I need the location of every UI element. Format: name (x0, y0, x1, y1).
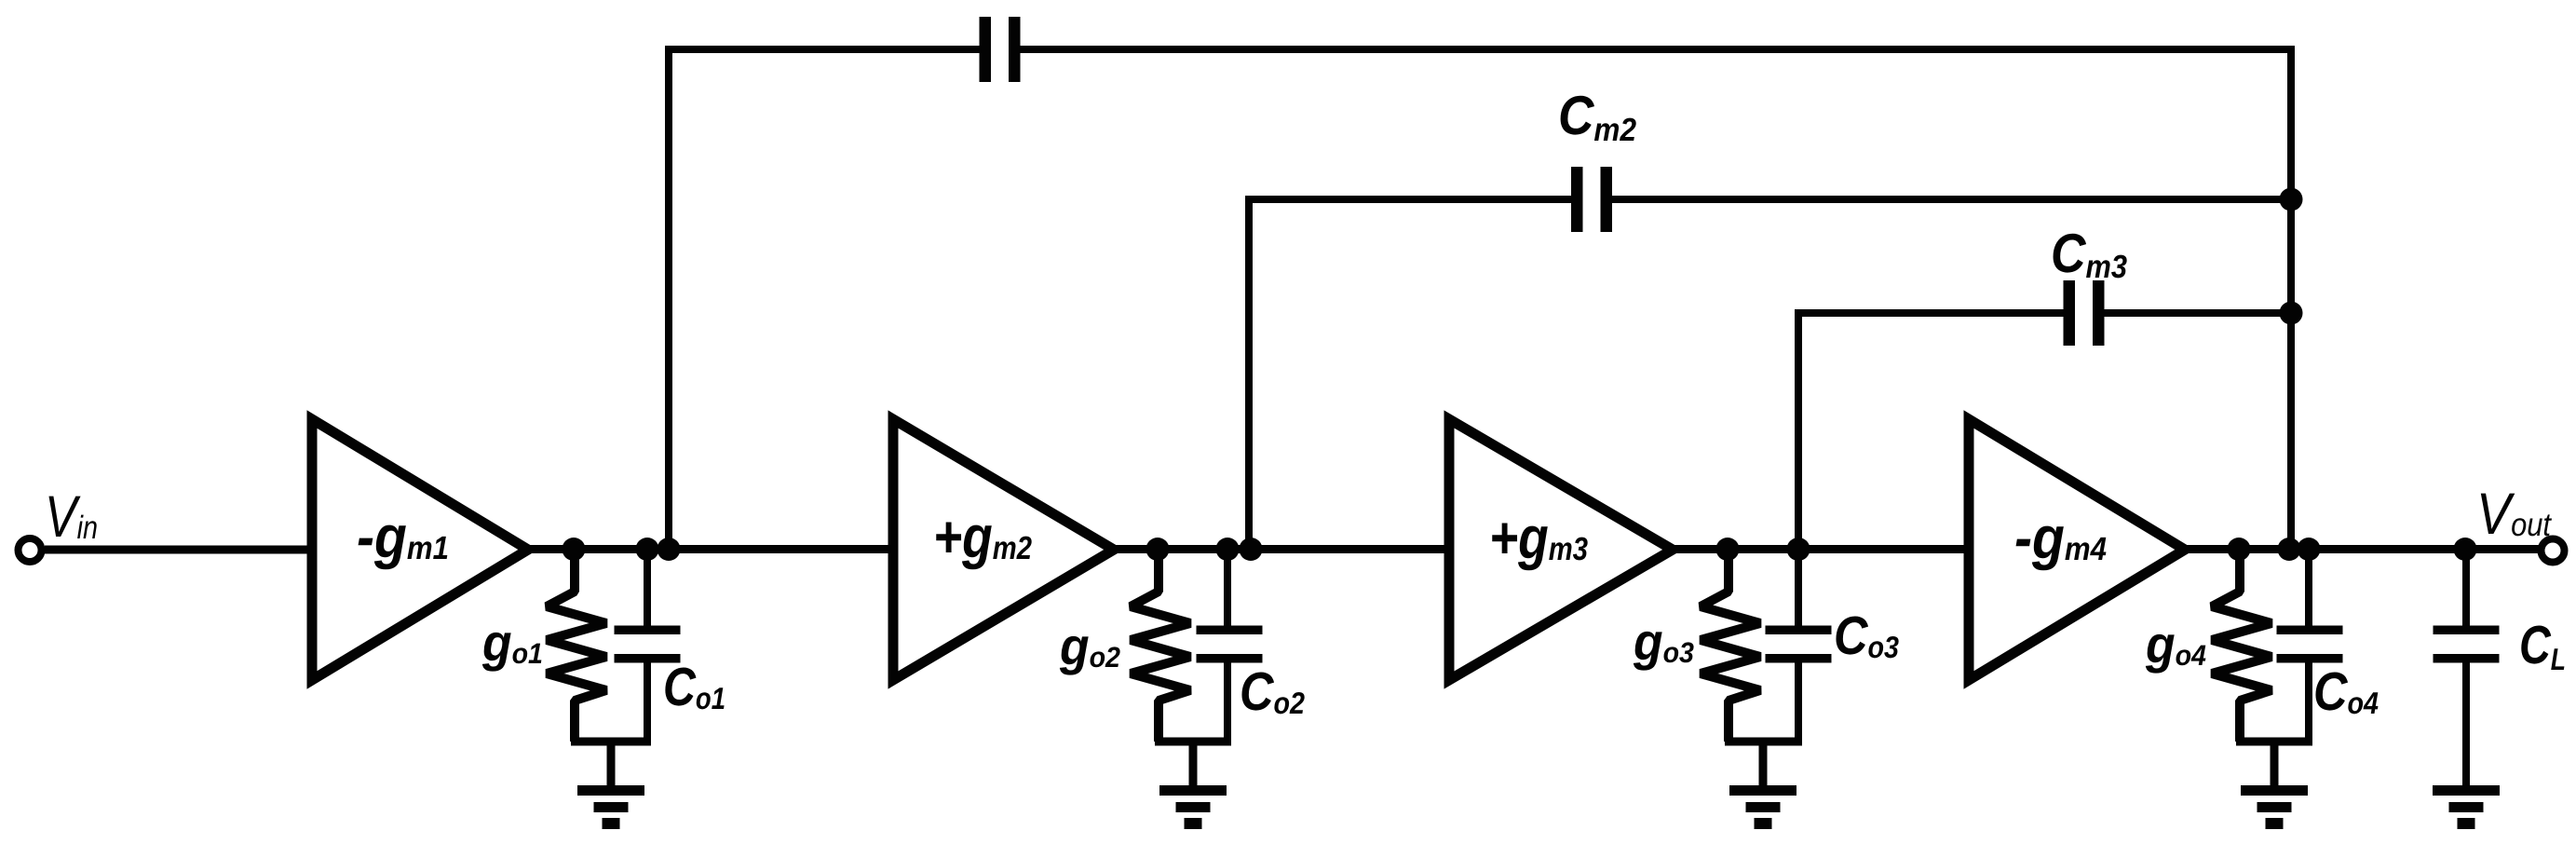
wire Co1 bottom plate down (644, 662, 651, 745)
wire Co4 bottom plate down (2305, 662, 2312, 745)
node dot Cm3/bus junction (2280, 302, 2303, 325)
ground stage2 (1159, 785, 1227, 829)
node dot V3a (1716, 538, 1740, 561)
capacitor Cm3 (2064, 280, 2105, 346)
wire bottom junction stage4 (2236, 742, 2312, 787)
node dot V1b (636, 538, 659, 561)
capacitor CL (2434, 626, 2500, 663)
node dot Vout-b (feedback bus junction) (2278, 538, 2301, 561)
wire Co3 bottom plate down (1795, 662, 1802, 745)
wire feedback riser node V2 up to Cm2 rail (1249, 199, 1572, 549)
wire gm1 output to gm2 input (node V1) (526, 545, 899, 553)
terminal Vout (2542, 539, 2565, 563)
wire feedback riser node V3 up to Cm3 rail (1798, 313, 2064, 549)
ground CL (2433, 785, 2500, 829)
ground stage1 (577, 785, 644, 829)
wire node to Co4 top plate (2305, 553, 2312, 626)
node dot Cm2/bus junction (2280, 188, 2303, 211)
wire bottom junction stage2 (1155, 742, 1231, 787)
wire Vin to gm1 input (45, 546, 318, 554)
wire node to Co3 top plate (1795, 553, 1802, 626)
node dot Vout-c (2298, 538, 2321, 561)
resistor go2 (1131, 553, 1190, 742)
node dot Vout-d (CL tap) (2454, 538, 2477, 561)
op-amp U2 (+gm2) (893, 419, 1114, 680)
capacitor Cm2 (1571, 167, 1612, 232)
node dot V1c (feedback tap) (658, 538, 681, 561)
node dot V2b (1216, 538, 1240, 561)
op-amp U1 (-gm1) (312, 419, 528, 680)
capacitor Co2 (1197, 626, 1263, 663)
wire node to Co1 top plate (644, 553, 651, 626)
wire Cm2 to output bus (1610, 196, 2291, 203)
wire gm2 output to gm3 input (node V2) (1112, 545, 1455, 553)
node dot V3b (1787, 538, 1810, 561)
op-amp U3 (+gm3) (1449, 419, 1673, 680)
wire bottom junction stage3 (1725, 742, 1802, 787)
terminal Vin (19, 538, 42, 562)
wire bottom junction stage1 (571, 742, 651, 787)
node dot V1a (563, 538, 586, 561)
wire CL bottom plate to ground (2462, 662, 2470, 787)
node dot Vout-a (2228, 538, 2251, 561)
op-amp U4 (-gm4) (1969, 419, 2185, 680)
wire gm3 output to gm4 input (node V3) (1671, 545, 1974, 553)
capacitor Co1 (615, 626, 681, 663)
capacitor Co4 (2277, 626, 2343, 663)
node dot V2a (1146, 538, 1170, 561)
resistor go4 (2212, 553, 2271, 742)
capacitor Co3 (1766, 626, 1832, 663)
wire Cm3 to output bus (2103, 309, 2291, 317)
wire gm4 output to Vout (2183, 545, 2539, 553)
wire Co2 bottom plate down (1224, 662, 1231, 745)
ground stage3 (1729, 785, 1796, 829)
resistor go1 (547, 553, 606, 742)
capacitor Cm1 (top feedback) (980, 17, 1021, 82)
wire feedback riser from node V1 to top rail (669, 49, 981, 549)
wire top rail from Cm1 to output bus, down right side (1019, 49, 2291, 549)
node dot V2c (feedback tap) (1240, 538, 1263, 561)
resistor go3 (1701, 553, 1760, 742)
wire node to CL top plate (2462, 553, 2470, 626)
wire node to Co2 top plate (1224, 553, 1231, 626)
ground stage4 (2241, 785, 2308, 829)
